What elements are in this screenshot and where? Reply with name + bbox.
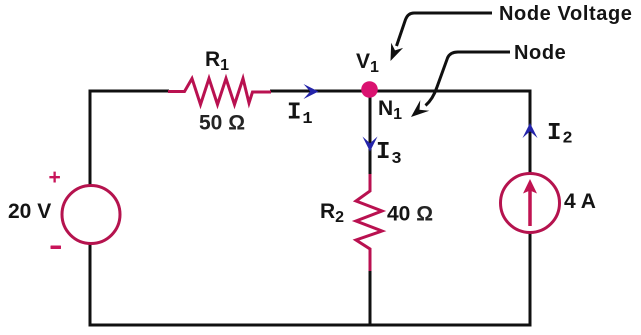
svg-text:20 V: 20 V <box>8 200 51 223</box>
svg-text:50 Ω: 50 Ω <box>199 112 245 135</box>
svg-text:40 Ω: 40 Ω <box>387 203 433 226</box>
svg-text:Node: Node <box>514 42 566 64</box>
svg-text:+: + <box>49 166 61 189</box>
svg-text:Node Voltage: Node Voltage <box>499 3 633 25</box>
svg-text:4 A: 4 A <box>564 190 596 213</box>
